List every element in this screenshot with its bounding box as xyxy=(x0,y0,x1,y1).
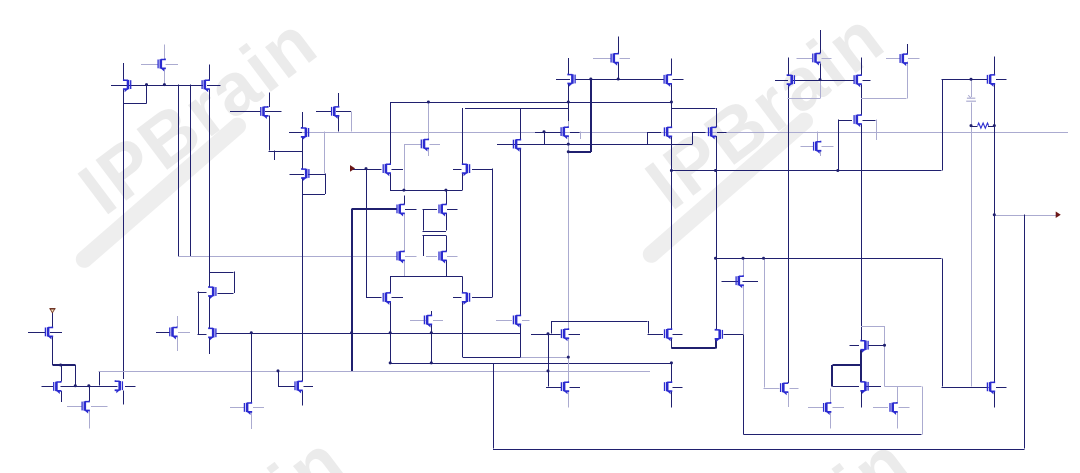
wire xyxy=(404,144,406,190)
wire xyxy=(580,132,582,139)
wire xyxy=(942,258,944,386)
resistor R1 xyxy=(978,123,989,128)
wire xyxy=(453,297,462,299)
transistor M20 xyxy=(900,53,907,66)
wire xyxy=(876,120,878,141)
wire xyxy=(178,85,180,257)
wire xyxy=(832,386,859,388)
wire xyxy=(52,311,54,327)
wire xyxy=(820,80,822,99)
wire xyxy=(178,332,190,334)
junction xyxy=(970,124,973,127)
wire xyxy=(99,371,650,373)
wire xyxy=(520,148,522,315)
transistor M45 xyxy=(665,381,672,394)
junction xyxy=(389,361,392,364)
junction xyxy=(365,167,368,170)
junction xyxy=(444,189,447,192)
junction xyxy=(163,83,166,86)
transistor M47 xyxy=(715,329,722,342)
wire xyxy=(899,407,910,409)
transistor M36 xyxy=(115,380,122,393)
wire xyxy=(453,169,462,171)
wire xyxy=(366,169,368,297)
junction xyxy=(836,169,839,172)
wire xyxy=(792,80,855,82)
wire xyxy=(861,84,863,115)
junction xyxy=(59,364,62,367)
junction xyxy=(567,150,570,153)
transistor M42 xyxy=(513,315,520,328)
wire xyxy=(28,332,45,334)
transistor M25 xyxy=(463,163,470,176)
input pin xyxy=(350,166,354,172)
wire xyxy=(61,391,63,402)
wire xyxy=(351,111,353,131)
wire xyxy=(551,321,648,323)
transistor M53 xyxy=(987,381,994,394)
wire xyxy=(568,121,570,127)
wire xyxy=(177,337,179,351)
wire xyxy=(996,79,1007,81)
wire xyxy=(423,209,425,231)
wire xyxy=(723,334,743,336)
transistor M16 xyxy=(854,74,861,87)
wire xyxy=(801,146,814,148)
junction xyxy=(250,331,253,334)
wire xyxy=(423,209,437,211)
transistor M3 xyxy=(202,79,209,92)
junction xyxy=(547,369,550,372)
transistor M17 xyxy=(813,53,820,66)
wire xyxy=(324,132,326,174)
wire xyxy=(302,112,304,128)
transistor M13 xyxy=(664,126,671,139)
transistor M32 xyxy=(736,275,743,288)
wire xyxy=(209,272,211,287)
wire xyxy=(671,102,673,127)
wire xyxy=(497,144,692,146)
wire xyxy=(426,256,437,258)
junction xyxy=(74,384,77,387)
wire xyxy=(988,126,994,128)
wire xyxy=(764,388,780,390)
transistor M5 xyxy=(302,127,309,140)
junction xyxy=(819,78,822,81)
wire xyxy=(520,357,568,359)
wire xyxy=(822,58,832,60)
wire xyxy=(404,260,406,276)
transistor M41 xyxy=(424,315,431,328)
wire xyxy=(568,136,570,329)
transistor M29 xyxy=(439,251,446,264)
wire xyxy=(830,389,832,403)
junction xyxy=(145,83,148,86)
transistor M24 xyxy=(383,163,390,176)
wire xyxy=(392,169,404,171)
wire xyxy=(833,407,844,409)
wire xyxy=(671,170,941,172)
wire xyxy=(971,126,973,387)
junction xyxy=(87,384,90,387)
wire xyxy=(822,146,834,148)
wire xyxy=(788,392,790,407)
junction xyxy=(543,130,546,133)
transistor M44 xyxy=(665,328,672,341)
wire xyxy=(430,144,441,146)
wire xyxy=(308,174,325,176)
wire xyxy=(390,276,462,278)
wire xyxy=(218,293,234,295)
wire xyxy=(647,132,661,134)
junction xyxy=(430,361,433,364)
wire xyxy=(209,64,211,80)
wire xyxy=(75,365,77,386)
wire xyxy=(722,281,739,283)
wire xyxy=(431,311,433,315)
wire xyxy=(216,333,521,335)
junction xyxy=(762,257,765,260)
wire xyxy=(908,58,920,60)
wire xyxy=(410,320,426,322)
wire xyxy=(433,320,443,322)
wire xyxy=(428,148,430,156)
wire xyxy=(671,108,715,110)
wire xyxy=(715,339,717,349)
transistor M1 xyxy=(124,79,131,92)
wire xyxy=(207,85,220,87)
wire xyxy=(868,345,885,347)
transistor M15 xyxy=(787,74,794,87)
junction xyxy=(993,213,996,216)
wire xyxy=(423,235,446,237)
junction xyxy=(427,101,430,104)
wire xyxy=(253,407,264,409)
wire xyxy=(462,108,464,164)
transistor M37 xyxy=(170,327,177,340)
wire xyxy=(472,169,492,171)
wire xyxy=(52,364,75,366)
wire xyxy=(830,412,832,429)
wire xyxy=(390,276,392,292)
wire xyxy=(867,386,882,388)
transistor M34 xyxy=(54,381,61,394)
bias pin xyxy=(50,309,55,313)
wire xyxy=(568,58,570,75)
transistor M35 xyxy=(82,401,89,414)
transistor M38 xyxy=(209,327,216,340)
wire xyxy=(67,406,82,408)
wire xyxy=(302,178,304,381)
wire xyxy=(861,98,907,100)
wire xyxy=(570,387,581,389)
wire xyxy=(338,116,340,132)
wire xyxy=(366,169,381,171)
wire xyxy=(209,296,211,328)
wire xyxy=(820,30,822,53)
wire xyxy=(743,334,745,434)
wire xyxy=(404,213,406,251)
wire xyxy=(234,272,236,294)
wire xyxy=(177,316,179,327)
wire xyxy=(808,407,823,409)
wire xyxy=(230,111,261,113)
wire xyxy=(190,85,192,257)
wire xyxy=(404,196,406,205)
wire xyxy=(671,136,673,329)
wire xyxy=(942,79,987,81)
wire xyxy=(994,84,996,382)
wire xyxy=(164,44,166,59)
junction xyxy=(430,331,433,334)
wire xyxy=(269,151,302,153)
junction xyxy=(970,78,973,81)
wire xyxy=(568,334,580,336)
wire xyxy=(428,102,430,140)
wire xyxy=(493,449,1024,451)
wire xyxy=(447,256,457,258)
junction xyxy=(567,143,570,146)
transistor M12 xyxy=(561,126,568,139)
wire xyxy=(790,388,799,390)
wire xyxy=(52,337,54,365)
wire xyxy=(673,387,683,389)
wire xyxy=(575,79,664,81)
wire xyxy=(922,387,924,435)
wire xyxy=(42,386,54,388)
wire xyxy=(390,363,671,365)
transistor M50 xyxy=(861,381,868,394)
wire xyxy=(775,80,788,82)
wire xyxy=(123,63,125,80)
transistor M49 xyxy=(861,340,868,353)
output pin xyxy=(1056,212,1060,217)
junction xyxy=(567,101,570,104)
wire xyxy=(831,365,833,386)
wire xyxy=(198,334,207,336)
wire xyxy=(352,208,398,210)
junction xyxy=(670,169,673,172)
wire xyxy=(146,85,148,104)
wire xyxy=(91,406,108,408)
wire xyxy=(648,334,664,336)
wire xyxy=(568,391,570,407)
wire xyxy=(316,111,332,113)
wire xyxy=(353,169,366,171)
wire xyxy=(593,58,611,60)
transistor M28 xyxy=(397,251,404,264)
transistor M51 xyxy=(824,402,831,415)
wire xyxy=(535,132,561,134)
wire xyxy=(884,326,886,387)
wire xyxy=(942,79,944,170)
junction xyxy=(617,78,620,81)
transistor M22 xyxy=(302,168,309,181)
wire xyxy=(788,98,821,100)
wire xyxy=(423,231,446,233)
transistor M31 xyxy=(463,292,470,305)
wire xyxy=(447,209,457,211)
transistor M6 xyxy=(332,106,339,119)
transistor M33 xyxy=(45,327,52,340)
wire xyxy=(522,144,531,146)
junction xyxy=(993,124,996,127)
wire xyxy=(590,79,592,152)
wire xyxy=(873,407,888,409)
wire xyxy=(861,326,884,328)
wire xyxy=(520,108,522,140)
wire xyxy=(743,434,921,436)
wire xyxy=(209,272,234,274)
wire xyxy=(861,391,863,407)
wire xyxy=(996,387,1007,389)
transistor M23 xyxy=(209,286,216,299)
wire xyxy=(99,371,101,386)
wire xyxy=(390,173,392,190)
wire xyxy=(648,321,650,334)
wire xyxy=(61,365,63,382)
wire xyxy=(717,132,726,134)
junction xyxy=(277,369,280,372)
wire xyxy=(1024,215,1026,449)
wire xyxy=(423,235,425,256)
wire xyxy=(351,209,353,371)
transistor M43 xyxy=(561,328,568,341)
wire xyxy=(673,79,684,81)
transistor M8 xyxy=(513,139,520,152)
wire xyxy=(251,412,253,429)
wire xyxy=(743,258,745,276)
wire xyxy=(743,285,745,334)
junction xyxy=(567,356,570,359)
wire xyxy=(885,386,922,388)
wire xyxy=(278,386,296,388)
transistor M52 xyxy=(890,402,897,415)
wire xyxy=(111,85,203,87)
wire xyxy=(141,64,158,66)
wire xyxy=(325,174,327,194)
wire xyxy=(269,116,271,151)
wire xyxy=(838,120,852,122)
wire xyxy=(390,302,392,363)
wire xyxy=(390,190,462,192)
junction xyxy=(547,332,550,335)
wire xyxy=(673,334,683,336)
wire xyxy=(446,260,448,276)
transistor M18 xyxy=(814,141,821,154)
junction xyxy=(589,78,592,81)
wire xyxy=(971,102,973,125)
junction xyxy=(714,169,717,172)
wire xyxy=(289,174,304,176)
wire xyxy=(179,256,398,258)
transistor M14 xyxy=(709,126,716,139)
wire xyxy=(50,332,62,334)
wire xyxy=(568,84,570,121)
wire xyxy=(820,151,822,157)
wire xyxy=(671,58,673,75)
wire xyxy=(548,334,550,387)
wire xyxy=(302,132,1068,134)
wire xyxy=(198,292,207,294)
wire xyxy=(546,387,561,389)
wire xyxy=(493,363,495,449)
wire xyxy=(886,58,900,60)
wire xyxy=(556,79,570,81)
transistor M26 xyxy=(397,204,404,217)
wire xyxy=(551,321,553,334)
wire xyxy=(390,333,392,363)
wire xyxy=(465,108,569,110)
transistor M4 xyxy=(261,106,268,119)
junction xyxy=(402,189,405,192)
wire xyxy=(861,58,863,75)
wire xyxy=(531,334,561,336)
wire xyxy=(994,392,996,408)
transistor M19 xyxy=(854,114,861,127)
wire xyxy=(492,169,494,298)
wire xyxy=(156,332,171,334)
wire xyxy=(897,412,899,429)
transistor M27 xyxy=(439,204,446,217)
wire xyxy=(307,132,324,134)
wire xyxy=(278,371,280,386)
wire xyxy=(907,62,909,99)
wire xyxy=(472,297,492,299)
junction xyxy=(883,344,886,347)
capacitor C1 xyxy=(966,95,976,101)
wire xyxy=(463,357,521,359)
wire xyxy=(568,151,591,153)
wire xyxy=(671,363,673,382)
wire xyxy=(366,297,381,299)
wire xyxy=(61,386,118,388)
wire xyxy=(336,111,351,113)
wire xyxy=(838,120,840,171)
transistor M7 xyxy=(421,139,428,152)
wire xyxy=(130,85,147,87)
wire xyxy=(123,103,146,105)
wire xyxy=(788,58,790,75)
wire xyxy=(123,89,125,379)
wire xyxy=(861,124,863,341)
transistor M11 xyxy=(611,53,618,66)
wire xyxy=(390,102,392,164)
wire xyxy=(788,84,790,383)
wire xyxy=(125,386,136,388)
wire xyxy=(817,132,819,142)
wire xyxy=(716,136,718,329)
wire xyxy=(743,281,759,283)
wire xyxy=(863,120,876,122)
wire xyxy=(289,132,303,134)
wire xyxy=(907,44,909,54)
junction xyxy=(670,361,673,364)
wire xyxy=(462,302,464,358)
wire xyxy=(304,386,314,388)
junction xyxy=(670,101,673,104)
wire xyxy=(568,338,570,357)
wire xyxy=(942,387,989,389)
wire xyxy=(849,345,859,347)
wire xyxy=(618,37,620,54)
wire xyxy=(302,391,304,406)
wire xyxy=(446,213,448,231)
transistor M48 xyxy=(781,382,788,395)
wire xyxy=(269,93,271,107)
wire xyxy=(338,93,340,107)
transistor M9 xyxy=(568,74,575,87)
